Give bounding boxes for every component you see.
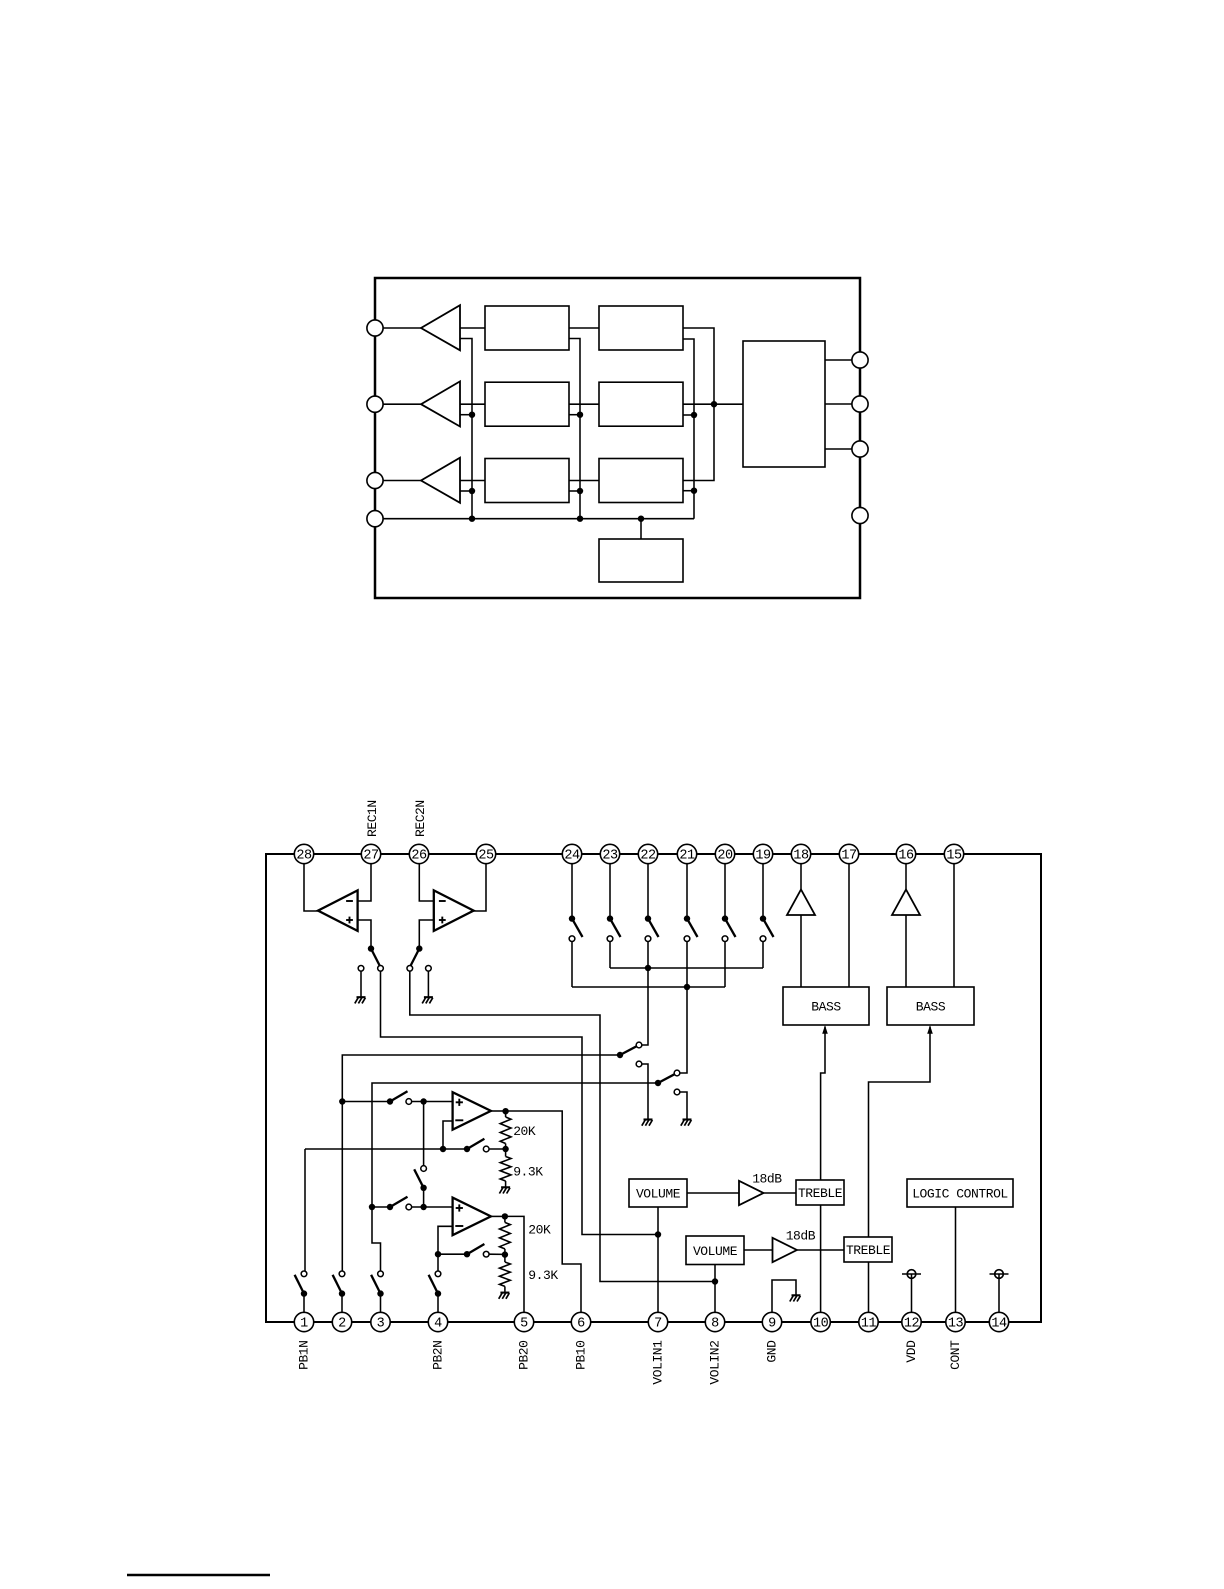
pin 13 xyxy=(946,1312,965,1331)
wire LOGIC CONTROL to pin13 (CONT) xyxy=(955,1207,957,1313)
svg-text:27: 27 xyxy=(363,849,379,864)
wire pin21 to S21 xyxy=(686,864,688,916)
svg-text:PB2N: PB2N xyxy=(430,1341,445,1370)
switch S1 common xyxy=(368,945,374,951)
svg-text:4: 4 xyxy=(434,1317,442,1332)
wire SA-b to ground xyxy=(642,1064,648,1119)
switch S5 common xyxy=(420,1185,426,1191)
wire pin19 to S19 xyxy=(762,864,764,916)
block TREBLE 1 xyxy=(796,1180,844,1205)
wire U3 output xyxy=(491,1110,506,1112)
wire B22 to B7 input xyxy=(683,403,743,405)
block B21 xyxy=(485,382,569,426)
pin 20 xyxy=(715,844,734,863)
wire A3 to B31 xyxy=(460,480,485,482)
wire pin9 (GND) to ground xyxy=(772,1280,796,1313)
amp 18dB (ch2) xyxy=(773,1238,797,1262)
pin 2 xyxy=(332,1312,351,1331)
svg-text:17: 17 xyxy=(841,849,857,864)
block B32 xyxy=(599,459,683,503)
ground xyxy=(357,996,366,998)
op-amp U4 (PB2) xyxy=(453,1198,491,1236)
switch S24 common xyxy=(569,915,575,921)
wire B12 output to bus x714 xyxy=(683,328,714,481)
block BASS 1 xyxy=(783,987,869,1025)
switch S22 common xyxy=(645,915,651,921)
switch S21 lever xyxy=(687,919,698,937)
switch S3b contact xyxy=(483,1146,489,1152)
switch S1 lever xyxy=(295,1275,304,1294)
switch S1 contact a (to ground) xyxy=(358,965,364,971)
switch S23 contact xyxy=(607,936,613,942)
svg-text:TREBLE: TREBLE xyxy=(846,1243,891,1258)
net REC-B wire (S24/S21/S20) xyxy=(571,941,573,987)
switch S2 contact a (to VOLIN2) xyxy=(407,965,413,971)
switch SB lever xyxy=(658,1074,675,1083)
pin 12 xyxy=(902,1312,921,1331)
junction U4+ at S5 xyxy=(420,1204,426,1210)
svg-text:25: 25 xyxy=(478,849,494,864)
switch S21 contact xyxy=(684,936,690,942)
switch S3 contact xyxy=(378,1271,384,1277)
resistor 9.3K (U4) xyxy=(500,1262,511,1286)
pin 17 xyxy=(839,844,858,863)
wire pin28 to U1 output xyxy=(304,864,318,911)
op-amp U3 (PB1) xyxy=(453,1092,491,1129)
wire pin12 to VDD terminal xyxy=(911,1274,913,1313)
wire pin24 to S24 xyxy=(571,864,573,916)
svg-text:9.3K: 9.3K xyxy=(528,1268,558,1283)
svg-text:11: 11 xyxy=(861,1317,877,1332)
terminal L2 xyxy=(367,396,383,412)
wire pin23 to S23 xyxy=(609,864,611,916)
junction bus x714 row2 xyxy=(711,401,717,407)
wire U3 non-inverting input line xyxy=(342,1101,390,1103)
wire VOLUME2 to amp xyxy=(744,1249,773,1251)
bottom rail wire xyxy=(383,518,694,520)
svg-text:CONT: CONT xyxy=(948,1340,963,1370)
arrow into BASS1 xyxy=(822,1025,828,1034)
wire TREBLE2 to BASS2 xyxy=(869,1027,931,1238)
switch S2 common xyxy=(416,945,422,951)
junction net REC-B at S21 xyxy=(684,984,690,990)
ground xyxy=(501,1186,510,1188)
switch S21 common xyxy=(684,915,690,921)
svg-text:10: 10 xyxy=(813,1317,829,1332)
switch S4b common xyxy=(464,1251,470,1257)
ground xyxy=(424,996,433,998)
pin 19 xyxy=(753,844,772,863)
junction feedback at U4- xyxy=(435,1251,441,1257)
pin 15 xyxy=(944,844,963,863)
switch S19 lever xyxy=(763,919,774,937)
wire S2a to VOLIN2 node xyxy=(410,971,715,1281)
pin 8 xyxy=(705,1312,724,1331)
junction rail to B8 xyxy=(638,516,644,522)
pin 23 xyxy=(600,844,619,863)
wire feedback to pin1 riser xyxy=(304,1149,306,1271)
junction feedback at U3- xyxy=(440,1146,446,1152)
wire S4a contact to U4 xyxy=(412,1206,453,1208)
switch S3b lever xyxy=(467,1139,484,1149)
wire TREBLE2 to pin11 xyxy=(868,1262,870,1313)
block B11 xyxy=(485,306,569,350)
resistor 9.3K (U3) xyxy=(500,1157,511,1182)
arrow into BASS2 xyxy=(927,1025,933,1034)
wire U3 inverting input to feedback xyxy=(443,1121,453,1149)
svg-text:7: 7 xyxy=(654,1317,662,1332)
svg-text:BASS: BASS xyxy=(916,1000,946,1015)
block B8 (bottom) xyxy=(599,539,683,582)
svg-text:9: 9 xyxy=(768,1317,776,1332)
wire pin16 to output amp xyxy=(905,864,907,889)
switch SA common xyxy=(617,1052,623,1058)
wire pin27 to U1 inverting input xyxy=(358,864,371,901)
pin 27 xyxy=(361,844,380,863)
pin 14 xyxy=(989,1312,1008,1331)
pin 24 xyxy=(562,844,581,863)
switch S24 lever xyxy=(572,919,583,937)
wire amp to BASS1 xyxy=(800,915,802,987)
block LOGIC CONTROL xyxy=(907,1179,1013,1207)
wire B21 to B22 xyxy=(569,403,599,405)
resistor 20K (U4) xyxy=(500,1222,511,1249)
wire S2b to ground xyxy=(427,971,429,996)
switch S1 contact xyxy=(301,1271,307,1277)
switch SA contact b (to ground) xyxy=(636,1061,642,1067)
terminal R1 xyxy=(852,352,868,368)
op-amp U2 (REC2) xyxy=(434,890,474,931)
pin 25 xyxy=(476,844,495,863)
switch S3 common xyxy=(377,1290,383,1296)
footer rule (blue) xyxy=(127,1574,270,1577)
wire VOLIN1: pin7 to VOLUME1 xyxy=(657,1207,659,1313)
wire pin17 to BASS1 xyxy=(848,864,850,987)
svg-text:22: 22 xyxy=(640,849,656,864)
switch S2 lever xyxy=(333,1275,342,1294)
svg-text:18dB: 18dB xyxy=(752,1171,782,1186)
pin 21 xyxy=(677,844,696,863)
svg-text:20K: 20K xyxy=(528,1222,551,1237)
pin 28 xyxy=(294,844,313,863)
block B31 xyxy=(485,459,569,503)
switch S4 contact xyxy=(435,1271,441,1277)
svg-text:20: 20 xyxy=(717,849,733,864)
pin 26 xyxy=(409,844,428,863)
svg-text:18: 18 xyxy=(793,849,809,864)
block VOLUME 1 xyxy=(629,1179,687,1207)
svg-text:BASS: BASS xyxy=(811,1000,841,1015)
svg-text:VDD: VDD xyxy=(904,1340,919,1363)
switch S3b common xyxy=(464,1146,470,1152)
wire U2 output to pin25 xyxy=(474,864,486,911)
wire amp to BASS2 xyxy=(905,915,907,987)
wire pin2 riser xyxy=(341,1102,343,1272)
wire S3b contact to divider xyxy=(489,1148,506,1150)
wire SA common to U3 non-inverting input xyxy=(342,1055,620,1102)
switch S22 contact xyxy=(645,936,651,942)
svg-text:1: 1 xyxy=(300,1317,308,1332)
ground xyxy=(644,1118,653,1120)
svg-text:REC2N: REC2N xyxy=(413,800,428,837)
wire pin22 to S22 xyxy=(647,864,649,916)
ground xyxy=(500,1292,509,1294)
svg-text:PB20: PB20 xyxy=(516,1341,531,1370)
switch S1 contact b (to VOLIN1) xyxy=(378,965,384,971)
wire S2 to pin2 xyxy=(341,1294,343,1313)
pin 7 xyxy=(648,1312,667,1331)
op-amp U1 (REC1) xyxy=(318,890,358,931)
wire B11 to B12 xyxy=(569,327,599,329)
wire S22 to SA contact xyxy=(642,941,648,1045)
wire U4 output xyxy=(491,1215,505,1217)
wire S4 to pin4 xyxy=(437,1294,439,1313)
buffer amp A1 xyxy=(421,305,460,350)
pin 10 xyxy=(811,1312,830,1331)
output amp (ch1, up) xyxy=(787,890,815,916)
switch S5 lever xyxy=(414,1169,423,1188)
wires B7 outputs to terminals xyxy=(825,359,852,361)
amp 18dB (ch1) xyxy=(739,1181,763,1205)
switch SA contact a xyxy=(636,1042,642,1048)
junction U3+ line at pin2 riser xyxy=(339,1098,345,1104)
block BASS 2 xyxy=(887,987,974,1025)
pin 16 xyxy=(896,844,915,863)
resistor 20K (U3) xyxy=(500,1117,511,1144)
junction U3+ to S5 xyxy=(420,1098,426,1104)
terminal R4 xyxy=(852,507,868,523)
pin 4 xyxy=(428,1312,447,1331)
junction divider U4 xyxy=(502,1251,508,1257)
svg-text:12: 12 xyxy=(904,1317,920,1332)
switch S3a lever xyxy=(390,1091,408,1101)
svg-text:VOLUME: VOLUME xyxy=(693,1244,738,1259)
feedback bus x472 (amps) xyxy=(460,339,472,519)
pin 1 xyxy=(294,1312,313,1331)
svg-text:9.3K: 9.3K xyxy=(513,1164,543,1179)
junction divider U3 xyxy=(502,1146,508,1152)
switch S4 lever xyxy=(429,1275,438,1294)
terminal R3 xyxy=(852,441,868,457)
svg-text:TREBLE: TREBLE xyxy=(798,1186,843,1201)
output amp (ch2, up) xyxy=(892,890,920,916)
wire U3 output to pin6 (PB10) xyxy=(506,1111,581,1313)
wire amp to TREBLE2 xyxy=(797,1249,844,1251)
junction U4 output xyxy=(502,1213,508,1219)
switch S20 contact xyxy=(722,936,728,942)
feedback line U3 xyxy=(305,1148,443,1150)
switch SB contact a xyxy=(674,1070,680,1076)
svg-text:14: 14 xyxy=(991,1317,1007,1332)
wire S21 to SB contact xyxy=(680,941,687,1073)
switch S1 common xyxy=(301,1290,307,1296)
feedback bus x694 (col2) xyxy=(683,339,694,519)
terminal R2 xyxy=(852,396,868,412)
switch S2 contact b (to ground) xyxy=(426,965,432,971)
switch S23 lever xyxy=(610,919,621,937)
block VOLUME 2 xyxy=(686,1236,744,1265)
block B12 xyxy=(599,306,683,350)
wire pin14 to terminal xyxy=(998,1274,1000,1313)
wire junction to S5 contact xyxy=(423,1102,425,1166)
pin 18 xyxy=(791,844,810,863)
svg-text:PB1N: PB1N xyxy=(296,1341,311,1370)
svg-text:16: 16 xyxy=(898,849,914,864)
svg-text:21: 21 xyxy=(679,849,695,864)
junction VOLIN2 xyxy=(712,1278,718,1284)
svg-text:20K: 20K xyxy=(513,1124,536,1139)
svg-text:24: 24 xyxy=(564,849,580,864)
wire SB-b to ground xyxy=(680,1092,687,1119)
switch SB contact b (to ground) xyxy=(674,1089,680,1095)
wire input 3 to A3 xyxy=(383,480,421,482)
switch S3a common xyxy=(387,1098,393,1104)
svg-text:GND: GND xyxy=(764,1340,779,1363)
svg-text:26: 26 xyxy=(411,849,427,864)
VDD terminal symbol xyxy=(902,1273,921,1275)
switch SB common xyxy=(655,1080,661,1086)
feedback bus x580 (col1) xyxy=(569,339,580,519)
svg-text:VOLIN1: VOLIN1 xyxy=(650,1340,665,1385)
switch S3a contact xyxy=(406,1099,412,1105)
svg-text:18dB: 18dB xyxy=(786,1228,816,1243)
switch S4a lever xyxy=(390,1197,408,1207)
switch SA lever xyxy=(620,1046,637,1055)
svg-text:19: 19 xyxy=(755,849,771,864)
block B22 xyxy=(599,382,683,426)
junction VOLIN1 xyxy=(655,1231,661,1237)
svg-text:23: 23 xyxy=(602,849,618,864)
switch S22 lever xyxy=(648,919,659,937)
feedback line U4 xyxy=(438,1253,467,1255)
wire A1 to B11 xyxy=(460,327,485,329)
svg-text:3: 3 xyxy=(377,1317,385,1332)
switch S4a contact xyxy=(406,1204,412,1210)
ground xyxy=(792,1294,801,1296)
terminal L3 xyxy=(367,472,383,488)
switch S20 lever xyxy=(725,919,736,937)
junction U3 output xyxy=(502,1108,508,1114)
wire S3a contact to U3 xyxy=(412,1101,453,1103)
wire U2 non-inverting input to S2 xyxy=(419,920,434,946)
wire rail to B8 xyxy=(640,519,642,539)
pin 11 xyxy=(859,1312,878,1331)
wire pin15 to BASS2 xyxy=(953,864,955,987)
switch S4b contact xyxy=(483,1251,489,1257)
svg-text:LOGIC CONTROL: LOGIC CONTROL xyxy=(912,1187,1008,1202)
wire pin26 to U2 inverting input xyxy=(419,864,434,901)
switch S5 contact xyxy=(421,1166,427,1172)
switch S2 contact xyxy=(339,1271,345,1277)
svg-text:VOLUME: VOLUME xyxy=(636,1187,681,1202)
terminal symbol (pin14) xyxy=(990,1273,1009,1275)
switch S20 common xyxy=(722,915,728,921)
switch S4 common xyxy=(435,1290,441,1296)
pin 6 xyxy=(571,1312,590,1331)
wire TREBLE1 to pin10 xyxy=(820,1205,822,1313)
terminal L1 xyxy=(367,320,383,336)
wire VOLIN2: pin8 to VOLUME2 xyxy=(714,1265,716,1313)
buffer amp A3 xyxy=(421,458,460,503)
pin 3 xyxy=(371,1312,390,1331)
svg-text:28: 28 xyxy=(296,849,312,864)
switch S4b lever xyxy=(467,1244,484,1254)
svg-text:15: 15 xyxy=(946,849,962,864)
junction U4+ line at x372 xyxy=(369,1204,375,1210)
IC boundary xyxy=(266,854,1041,1322)
switch S23 common xyxy=(607,915,613,921)
wire A2 to B21 xyxy=(460,403,485,405)
terminal L4 xyxy=(367,511,383,527)
wire x372 to pin3 jog xyxy=(372,1207,381,1271)
pin 9 xyxy=(762,1312,781,1331)
wire S1 to pin1 xyxy=(303,1294,305,1313)
pin 5 xyxy=(514,1312,533,1331)
pin 22 xyxy=(638,844,657,863)
wire S4b contact to divider xyxy=(489,1253,505,1255)
svg-text:VOLIN2: VOLIN2 xyxy=(707,1341,722,1385)
wire pin18 to output amp xyxy=(800,864,802,889)
switch S19 common xyxy=(760,915,766,921)
wire amp to TREBLE1 xyxy=(763,1192,796,1194)
switch S4a common xyxy=(387,1204,393,1210)
wire pin20 to S20 xyxy=(724,864,726,916)
switch S2 common xyxy=(339,1290,345,1296)
wire B31 to B32 xyxy=(569,480,599,482)
block diagram outer enclosure xyxy=(375,278,860,598)
wire input 2 to A2 xyxy=(383,403,421,405)
wire U1 non-inverting input to S1 xyxy=(358,920,371,946)
switch S24 contact xyxy=(569,936,575,942)
buffer amp A2 xyxy=(421,381,460,426)
ground xyxy=(683,1118,692,1120)
switch S19 contact xyxy=(760,936,766,942)
net REC-A wire (S23/S22/S19) xyxy=(609,941,611,968)
svg-text:6: 6 xyxy=(577,1317,585,1332)
wire SB common to U4 non-inverting input xyxy=(372,1083,658,1207)
wire U4 inverting input to feedback xyxy=(438,1226,453,1254)
wire U4 feedback to pin4 riser xyxy=(437,1254,439,1271)
svg-text:5: 5 xyxy=(520,1317,528,1332)
svg-text:13: 13 xyxy=(948,1317,964,1332)
wire U4 output to pin5 (PB20) xyxy=(505,1216,524,1312)
wire TREBLE1 to BASS1 (with jog) xyxy=(821,1027,825,1181)
wire S3 to pin3 xyxy=(380,1294,382,1313)
block TREBLE 2 xyxy=(844,1237,892,1262)
block B7 (right) xyxy=(743,341,825,467)
switch S2 lever xyxy=(410,949,419,967)
svg-text:PB10: PB10 xyxy=(573,1341,588,1370)
svg-text:8: 8 xyxy=(711,1317,719,1332)
svg-text:REC1N: REC1N xyxy=(365,800,380,837)
junction net REC-A at S22 xyxy=(645,965,651,971)
wire U4 non-inverting input line xyxy=(372,1206,390,1208)
wire input 1 to A1 xyxy=(383,327,421,329)
svg-text:2: 2 xyxy=(338,1317,346,1332)
wire S5 common to U4+ line xyxy=(423,1188,425,1207)
switch S3 lever xyxy=(371,1275,380,1294)
switch S1 lever xyxy=(371,949,380,967)
wire S1a to ground xyxy=(360,971,362,996)
wire S1b to VOLIN1 node xyxy=(381,971,659,1234)
wire VOLUME1 to amp xyxy=(687,1192,739,1194)
